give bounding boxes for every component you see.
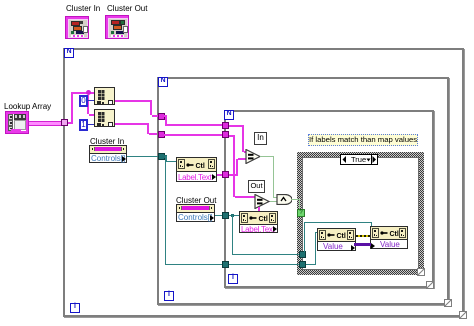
tunnel B: cluster Out on loop3 xyxy=(222,131,229,138)
property node L: Ctl / Value (read) xyxy=(317,228,356,251)
property node R: Ctl / Value (write) xyxy=(370,226,408,249)
wire: tunnel A to equals1 top input xyxy=(229,125,244,127)
wire: vertical up to index arrays xyxy=(71,92,73,124)
label Cluster In (property node) xyxy=(90,137,124,146)
tunnel: cluster Out on loop2 xyxy=(158,131,165,138)
case selector label True xyxy=(340,154,378,165)
Index Array node 2 xyxy=(94,109,115,127)
thick pink wire: Lookup Array to outer loop tunnel xyxy=(29,121,63,126)
dashed reference wire between Ctl rows xyxy=(356,235,370,237)
teal wire: Controls[] to loop2 tunnel xyxy=(127,156,158,157)
teal wire inside case: T2 up to node L xyxy=(306,264,316,265)
label Cluster Out (top) xyxy=(107,4,147,13)
teal branch dot 2 xyxy=(231,214,234,217)
wire: 0 to index array 1 xyxy=(88,100,94,101)
wire: horizontal to Index Array 1 xyxy=(73,92,94,94)
wire: 1 to index array 2 xyxy=(88,124,94,125)
violet variant wire Value to Value xyxy=(354,243,371,246)
svg-text:Ctl: Ctl xyxy=(259,216,268,222)
teal wire bottom run to case xyxy=(165,264,300,265)
teal case tunnel T1 xyxy=(299,251,306,258)
case structure hatched border xyxy=(297,152,424,275)
property node: Cluster In Controls[] xyxy=(89,145,127,163)
outer loop N terminal xyxy=(64,48,74,58)
teal branch down to case T1 xyxy=(232,215,233,255)
wire: tunnel C to equals1 bottom input xyxy=(229,174,238,176)
wire: loop2 tunnel to loop3 tunnel (lower) xyxy=(164,134,223,136)
green wire: equals2 out to AND xyxy=(270,201,277,202)
equals node 1 xyxy=(245,149,262,164)
wire: horizontal to Index Array 2 xyxy=(89,114,94,116)
tunnel: cluster In on loop2 xyxy=(158,113,165,120)
label Lookup Array xyxy=(4,102,51,111)
third loop resize corner xyxy=(426,281,434,289)
label Cluster In (top) xyxy=(66,4,100,13)
AND gate xyxy=(276,194,292,205)
wire: index2 output to loop2 tunnel xyxy=(115,123,148,125)
Out wire label box xyxy=(248,180,265,193)
third loop i terminal xyxy=(228,274,238,284)
wire: tunnel right stub xyxy=(68,122,73,124)
teal branch dot xyxy=(164,155,167,158)
case resize corner xyxy=(417,268,425,276)
tunnel: lookup array on outer loop xyxy=(61,119,68,126)
teal tunnel on loop3 (bottom) xyxy=(222,261,229,268)
Lookup Array constant icon xyxy=(5,111,29,134)
wire: tunnel B to equals2 top input xyxy=(229,135,235,137)
teal wire: Controls[] out through loop3 tunnel xyxy=(215,215,239,216)
Index Array node 1 xyxy=(94,87,115,105)
free label: If labels match than map values xyxy=(308,134,418,146)
teal long branch down xyxy=(165,156,166,265)
second for loop border xyxy=(157,77,449,305)
wire: loop2 tunnel to loop3 tunnel (upper) xyxy=(164,115,167,117)
case structure interior xyxy=(302,157,419,270)
tunnel C on loop3 xyxy=(222,171,229,178)
teal tunnel on loop3 (mid) xyxy=(222,212,229,219)
magenta wire: equals2 bottom input from Ctl node xyxy=(258,207,260,212)
svg-text:Ctl: Ctl xyxy=(196,163,205,169)
svg-text:Ctl: Ctl xyxy=(337,233,346,239)
magenta wire: Label.Text out to loop3 tunnel xyxy=(217,174,223,176)
second loop resize corner xyxy=(444,299,452,307)
teal wire jog down xyxy=(166,156,167,162)
third for loop border xyxy=(224,110,434,288)
equals node 2 xyxy=(254,194,271,209)
case selector tunnel (green ?) xyxy=(297,209,305,217)
Cluster In front-panel icon xyxy=(65,16,89,39)
outer for loop border xyxy=(63,48,464,317)
property node: Ctl / Label.Text (Cluster Out) xyxy=(239,211,278,233)
tunnel A: cluster In on loop3 xyxy=(222,122,229,129)
constant 0 xyxy=(79,95,88,107)
svg-text:True: True xyxy=(351,155,366,164)
third loop N terminal xyxy=(224,110,234,120)
outer loop resize corner xyxy=(459,311,467,319)
svg-text:Ctl: Ctl xyxy=(390,231,399,237)
constant 1 xyxy=(79,119,88,131)
teal wire inside case: T1 up and over to node R xyxy=(304,222,305,252)
green wire: equals1 out to AND xyxy=(260,156,274,157)
second loop N terminal xyxy=(158,77,168,87)
Cluster Out front-panel icon xyxy=(105,15,129,39)
property node: Ctl / Label.Text (Cluster In) xyxy=(176,157,217,182)
second loop i terminal xyxy=(164,291,174,301)
outer loop i terminal xyxy=(70,303,80,313)
teal wire: tunnel to branch dot xyxy=(164,156,167,157)
wire junction dot xyxy=(86,90,91,95)
teal tunnel on loop2 xyxy=(158,153,165,160)
wire: branch down to Index Array 2 xyxy=(87,95,89,114)
teal wire to Ctl node xyxy=(166,161,176,162)
teal case tunnel T2 xyxy=(299,261,306,268)
green wire: AND out to case selector xyxy=(291,199,300,200)
property node: Cluster Out Controls[] xyxy=(176,204,215,222)
In wire label box xyxy=(254,132,267,145)
label Cluster Out (property node) xyxy=(176,196,216,205)
wire: index1 output to loop2 tunnel xyxy=(115,100,151,102)
